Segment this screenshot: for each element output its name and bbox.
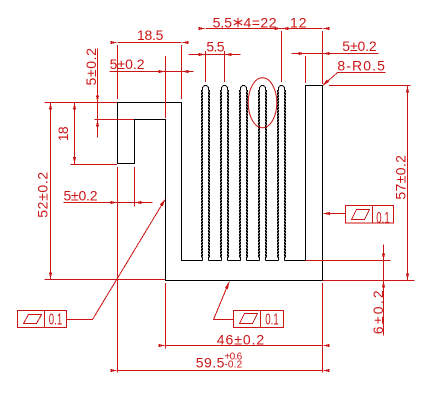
- slot 2 bottom edge: [209, 260, 222, 262]
- feature control frame 1 box: [18, 311, 67, 328]
- dim 5±0.2 lip left arrow: [111, 201, 118, 204]
- fin 3 right serrated edge: [247, 91, 248, 261]
- dim 5±0.2 lip right extension line: [134, 167, 136, 207]
- svg-text:5.5: 5.5: [213, 15, 233, 31]
- fin 4 rounded cap: [260, 86, 266, 91]
- svg-text:5±0.2: 5±0.2: [64, 187, 98, 203]
- fin 4 left serrated edge: [259, 91, 260, 261]
- feature control frame 1 parallelogram symbol: [24, 315, 42, 324]
- slot 4 bottom edge: [247, 260, 260, 262]
- fin 3 rounded cap: [241, 86, 247, 91]
- svg-text:12: 12: [290, 15, 307, 31]
- dim 57±0.2 top extension line: [329, 85, 411, 87]
- feature control frame 2 leader: [324, 213, 346, 215]
- dim 52±0.2 top arrow: [49, 103, 52, 110]
- feature control frame 3 parallelogram symbol: [240, 314, 258, 324]
- dim 52±0.2 top extension line: [45, 102, 118, 104]
- fin 5 right serrated edge: [285, 91, 286, 261]
- svg-text:-0.2: -0.2: [224, 360, 242, 371]
- dim 5±0.2 tab underside extension line: [95, 119, 135, 121]
- dim 5.5 left arrow: [199, 53, 206, 56]
- dim 18 bottom extension line: [71, 164, 118, 166]
- callout 8-R0.5 leader: [324, 73, 338, 86]
- dim 18.5 right arrow: [182, 41, 189, 44]
- fin 1 right serrated edge: [209, 91, 210, 261]
- dim 5±0.2 wall left arrow: [299, 52, 306, 55]
- dim 12 right arrow: [323, 27, 330, 30]
- feature control frame 2 leader arrow: [323, 212, 330, 215]
- svg-text:5.5: 5.5: [206, 39, 224, 55]
- flange lip inner edge: [134, 119, 136, 164]
- dim 5.5*4=22 right arrow: [282, 27, 289, 30]
- svg-text:6±0.2: 6±0.2: [370, 290, 386, 334]
- dim 5±0.2 web right arrow: [182, 70, 189, 73]
- dim 18.5 dimension line: [118, 42, 182, 44]
- left edge long extension line: [117, 167, 119, 373]
- flange notch underside edge: [134, 119, 166, 121]
- svg-text:5±0.2: 5±0.2: [83, 48, 99, 86]
- dim 18 bottom arrow: [73, 157, 76, 164]
- dim 5±0.2 lip dimension line: [64, 202, 153, 204]
- fin 4 right serrated edge: [266, 91, 267, 261]
- dim 5.5*4=22 label asterisk: [234, 18, 242, 28]
- dim 5±0.2 tab thickness dimension line: [97, 49, 99, 138]
- fin 2 right serrated edge: [228, 91, 229, 261]
- feature control frame 2 box: [346, 206, 394, 224]
- svg-text:0.1: 0.1: [376, 210, 389, 227]
- dim 5.5*4=22 dimension line: [206, 28, 282, 30]
- fin 3 left serrated edge: [240, 91, 241, 261]
- svg-text:59.5: 59.5: [196, 355, 225, 371]
- dim 59.5 left arrow: [111, 369, 118, 372]
- dim 5.5*4=22 right extension line: [281, 31, 283, 82]
- dim 5±0.2 lip right arrow: [135, 201, 142, 204]
- dim 18 top arrow: [73, 103, 76, 110]
- dim 5.5 left extension line: [205, 51, 207, 82]
- svg-text:52±0.2: 52±0.2: [34, 172, 50, 218]
- feature control frame 3 box: [234, 311, 284, 328]
- dim 5±0.2 tab bottom arrow: [96, 120, 99, 127]
- dim 12 right extension line: [322, 31, 324, 84]
- slot 5 bottom edge: [266, 260, 279, 262]
- fin 2 rounded cap: [222, 86, 228, 91]
- dim 52±0.2 dimension line: [50, 103, 52, 280]
- dim 5±0.2 wall dimension line: [292, 53, 379, 55]
- slot 3 bottom edge: [228, 260, 241, 262]
- dim 5±0.2 wall left extension line: [305, 56, 307, 83]
- dim 52±0.2 bottom extension line: [45, 279, 166, 281]
- dim 46±0.2 left arrow: [159, 344, 166, 347]
- svg-text:4=22: 4=22: [244, 15, 277, 31]
- dim 5.5 right arrow: [225, 53, 232, 56]
- svg-text:0.1: 0.1: [265, 312, 278, 329]
- svg-text:5±0.2: 5±0.2: [342, 38, 377, 54]
- right wall top edge: [305, 85, 323, 87]
- dim 6±0.2 top arrow: [382, 254, 385, 261]
- dim 12 left arrow: [275, 27, 282, 30]
- flange lip left edge: [117, 102, 119, 164]
- base bottom edge: [165, 280, 323, 282]
- dim 57±0.2 dimension line: [407, 86, 409, 281]
- fin 5 rounded cap: [279, 86, 285, 91]
- dim 52±0.2 bottom arrow: [49, 273, 52, 280]
- flange lip bottom edge: [117, 163, 134, 165]
- callout 8-R0.5 underline: [338, 72, 386, 74]
- dim 5±0.2 web extension line: [165, 56, 167, 118]
- dim 5±0.2 tab top arrow: [96, 96, 99, 103]
- dim 46±0.2 right extension line: [322, 283, 324, 373]
- dim 18.5 left arrow: [111, 41, 118, 44]
- slot 6 bottom edge: [285, 260, 306, 262]
- dim 57±0.2 top arrow: [406, 86, 409, 93]
- dim 12 dimension line: [282, 28, 323, 30]
- fin 1 left serrated edge: [202, 91, 203, 261]
- svg-text:5±0.2: 5±0.2: [110, 56, 145, 72]
- body left edge: [165, 119, 167, 281]
- dim 18.5 left extension line: [117, 45, 119, 99]
- heatsink top surface (left section): [117, 102, 182, 104]
- dim 6±0.2 top extension line: [306, 260, 391, 262]
- dim 46±0.2 right arrow: [323, 344, 330, 347]
- dim 5±0.2 web dimension line: [110, 71, 194, 73]
- feature control frame 3 leader: [214, 282, 234, 319]
- right wall left edge: [305, 85, 307, 261]
- dim 59.5 dimension line: [118, 370, 323, 372]
- dim 6±0.2 dimension line: [383, 245, 385, 336]
- feature control frame 2 parallelogram symbol: [352, 210, 370, 220]
- dim 6±0.2 bottom arrow: [382, 281, 385, 288]
- body right edge: [322, 85, 324, 281]
- dim 5.5 right extension line: [224, 51, 226, 82]
- fin 1 rounded cap: [203, 86, 209, 91]
- svg-text:0.1: 0.1: [49, 312, 62, 329]
- dim 57±0.2 bottom arrow: [406, 274, 409, 281]
- dim 5±0.2 wall right arrow: [323, 52, 330, 55]
- dim 57±0.2 bottom extension line: [323, 280, 415, 282]
- svg-text:8-R0.5: 8-R0.5: [337, 58, 385, 74]
- dim 46±0.2 left extension line: [165, 283, 167, 349]
- dim 18.5 right extension line: [181, 45, 183, 99]
- detail ellipse marker on fin 4: [248, 78, 277, 128]
- dim 5.5*4=22 left arrow: [199, 27, 206, 30]
- svg-text:18: 18: [55, 126, 71, 141]
- svg-text:46±0.2: 46±0.2: [217, 331, 265, 347]
- fin 2 left serrated edge: [221, 91, 222, 261]
- svg-text:57±0.2: 57±0.2: [392, 155, 408, 200]
- slot 1 left wall: [181, 102, 183, 261]
- dim 5.5 dimension line: [189, 54, 241, 56]
- fin 5 left serrated edge: [278, 91, 279, 261]
- feature control frame 1 leader arrow: [160, 199, 166, 207]
- dim 18 dimension line: [74, 103, 76, 165]
- dim 5±0.2 web left arrow: [159, 70, 166, 73]
- feature control frame 1 leader: [67, 200, 166, 320]
- slot 1 bottom edge: [182, 260, 203, 262]
- dim 46±0.2 dimension line: [166, 345, 323, 347]
- dim 59.5 right arrow: [323, 369, 330, 372]
- feature control frame 3 leader arrow: [225, 281, 230, 289]
- svg-text:18.5: 18.5: [137, 27, 164, 43]
- callout 8-R0.5 leader arrow: [322, 80, 329, 87]
